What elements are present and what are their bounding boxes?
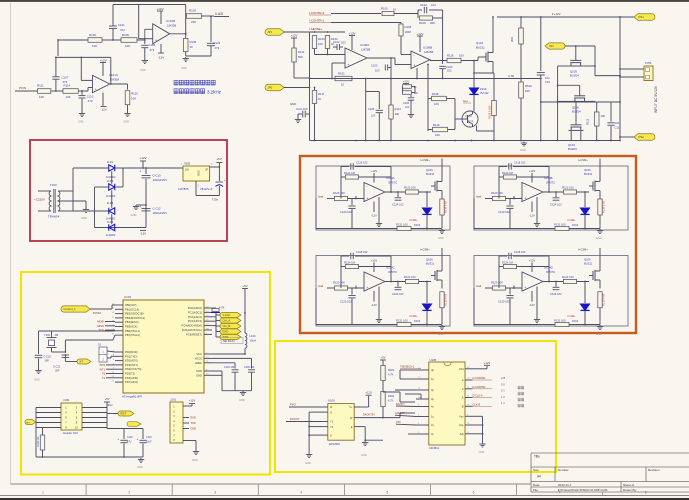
svg-text:C101 104: C101 104	[224, 366, 235, 369]
svg-text:R120 10K: R120 10K	[491, 191, 503, 195]
svg-text:+: +	[137, 437, 139, 441]
svg-text:R510: R510	[525, 84, 532, 88]
svg-text:D104: D104	[414, 224, 421, 227]
svg-text:473: 473	[88, 99, 93, 103]
svg-text:TP06: TP06	[645, 61, 652, 65]
svg-text:I-CSM+: I-CSM+	[567, 219, 576, 222]
svg-text:+: +	[118, 437, 120, 441]
svg-text:2: 2	[128, 490, 130, 494]
svg-text:I-CONTR-2: I-CONTR-2	[309, 11, 324, 15]
svg-text:XT: XT	[80, 360, 84, 364]
svg-text:I-SENSE+: I-SENSE+	[309, 27, 323, 31]
svg-text:R108: R108	[405, 25, 412, 29]
svg-text:+5V: +5V	[242, 284, 247, 288]
svg-text:1 1: 1 1	[501, 401, 505, 405]
svg-text:D-CONTR1: D-CONTR1	[473, 377, 487, 380]
svg-text:1: 1	[42, 490, 44, 494]
svg-text:~C220V: ~C220V	[34, 198, 45, 202]
svg-text:PD0(RXD): PD0(RXD)	[125, 350, 138, 354]
svg-text:F+12V: F+12V	[552, 12, 561, 16]
svg-text:C-50: C-50	[508, 74, 515, 78]
svg-text:7SEGBCD-1: 7SEGBCD-1	[400, 366, 415, 369]
svg-text:S1: S1	[98, 343, 102, 347]
svg-text:C107: C107	[62, 76, 69, 80]
svg-text:PVO: PVO	[290, 403, 296, 407]
svg-text:Ioad: Ioad	[476, 195, 482, 199]
svg-text:RL10 0.02: RL10 0.02	[444, 200, 448, 213]
svg-text:-12V: -12V	[371, 303, 377, 307]
svg-text:5: 5	[387, 490, 389, 494]
svg-text:R109: R109	[419, 21, 426, 25]
svg-text:GND: GND	[140, 69, 146, 72]
svg-text:C106 104: C106 104	[244, 366, 255, 369]
svg-text:I+CSM+: I+CSM+	[420, 248, 430, 252]
svg-text:GND: GND	[520, 148, 526, 152]
svg-text:C110: C110	[87, 95, 94, 99]
svg-text:C11: C11	[615, 126, 620, 130]
svg-text:R115: R115	[586, 118, 590, 125]
svg-text:C10: C10	[545, 80, 550, 84]
svg-text:PC1(ADC1): PC1(ADC1)	[188, 310, 202, 314]
svg-text:R201: R201	[388, 368, 395, 372]
svg-text:+12V: +12V	[529, 259, 536, 263]
svg-text:T10a: T10a	[212, 198, 218, 202]
svg-text:4.7K: 4.7K	[388, 373, 394, 377]
svg-text:PD7(AIN1): PD7(AIN1)	[125, 380, 138, 384]
svg-text:PD5(T1): PD5(T1)	[125, 372, 135, 376]
svg-text:+12V: +12V	[484, 361, 491, 365]
svg-text:Vee: Vee	[459, 423, 464, 427]
svg-text:A4: A4	[537, 475, 541, 479]
svg-text:R122 100: R122 100	[562, 186, 574, 190]
svg-text:-12V: -12V	[140, 232, 146, 236]
svg-text:J100: J100	[63, 398, 70, 402]
svg-text:D104: D104	[572, 224, 579, 227]
svg-text:Q101: Q101	[476, 41, 483, 45]
svg-text:GND: GND	[181, 67, 187, 70]
svg-text:1N4002: 1N4002	[106, 217, 116, 221]
svg-text:+12V: +12V	[156, 7, 164, 11]
svg-text:BUZ04: BUZ04	[568, 147, 577, 151]
svg-text:10K: 10K	[66, 95, 71, 99]
svg-text:R106: R106	[122, 33, 129, 37]
svg-text:103: 103	[375, 69, 380, 73]
svg-text:DAOUT: DAOUT	[396, 403, 405, 406]
svg-text:DAOUT: DAOUT	[290, 417, 300, 421]
svg-text:Ioad: Ioad	[318, 284, 324, 288]
svg-text:473: 473	[215, 46, 220, 50]
svg-text:Q106: Q106	[584, 168, 591, 172]
svg-text:ADG509: ADG509	[329, 442, 340, 446]
svg-text:1K: 1K	[190, 45, 194, 49]
svg-text:GND: GND	[196, 369, 202, 373]
svg-text:473: 473	[63, 80, 68, 84]
svg-text:Ioad: Ioad	[476, 284, 482, 288]
svg-text:PC5(ADC5/SCL): PC5(ADC5/SCL)	[182, 328, 202, 332]
svg-text:9014: 9014	[467, 119, 474, 123]
svg-text:+12V: +12V	[291, 34, 298, 38]
svg-text:SCK: SCK	[99, 328, 105, 332]
svg-text:C124 102: C124 102	[392, 203, 404, 207]
svg-text:4.7K: 4.7K	[388, 399, 394, 403]
svg-text:22K: 22K	[191, 20, 196, 24]
svg-text:Q106: Q106	[584, 258, 591, 262]
svg-text:D-CONTR2: D-CONTR2	[473, 386, 487, 389]
svg-text:+12V: +12V	[371, 169, 378, 173]
svg-text:R110: R110	[131, 92, 138, 96]
svg-text:PB5(SCK): PB5(SCK)	[125, 325, 138, 329]
svg-text:R202: R202	[388, 394, 395, 398]
svg-text:C100: C100	[420, 3, 427, 7]
svg-text:VCC: VCC	[196, 352, 202, 356]
svg-text:C116: C116	[146, 436, 152, 439]
svg-text:Adj: Adj	[460, 432, 464, 436]
svg-text:2012-11-7: 2012-11-7	[558, 483, 572, 487]
svg-text:C115: C115	[127, 436, 133, 439]
svg-text:BUZ04: BUZ04	[570, 74, 579, 78]
svg-text:GND: GND	[479, 450, 485, 454]
svg-text:MISO: MISO	[97, 324, 104, 328]
svg-text:I-CSM+: I-CSM+	[409, 219, 418, 222]
svg-text:TRANS4: TRANS4	[48, 215, 60, 219]
svg-text:AVCC: AVCC	[195, 356, 202, 360]
svg-text:PD1(TXD): PD1(TXD)	[125, 354, 137, 358]
svg-text:I+CSM+: I+CSM+	[420, 158, 430, 162]
svg-text:C118 102: C118 102	[356, 250, 368, 254]
svg-text:1K: 1K	[318, 97, 322, 101]
svg-text:103: 103	[431, 3, 436, 7]
svg-text:LM7805: LM7805	[178, 187, 189, 191]
svg-text:10K: 10K	[601, 114, 606, 118]
svg-text:-12V: -12V	[529, 214, 535, 218]
svg-text:LM358: LM358	[361, 48, 371, 52]
svg-text:R124 1M: R124 1M	[344, 261, 356, 265]
svg-text:10K: 10K	[125, 44, 130, 48]
svg-text:R111: R111	[298, 50, 305, 54]
svg-text:PS2: PS2	[639, 135, 645, 139]
svg-text:GND: GND	[131, 213, 137, 217]
svg-text:C105: C105	[368, 107, 375, 111]
svg-text:PB3(MOSI/OC2): PB3(MOSI/OC2)	[125, 316, 145, 320]
svg-text:INPUT DC 9V/12V: INPUT DC 9V/12V	[654, 85, 658, 113]
svg-text:D-D1: D-D1	[107, 160, 114, 164]
svg-text:R118: R118	[432, 92, 439, 96]
svg-text:+12V: +12V	[371, 259, 378, 263]
svg-text:C-C12: C-C12	[153, 207, 162, 211]
svg-text:U101A: U101A	[109, 73, 118, 77]
svg-text:D-D3: D-D3	[107, 201, 114, 205]
svg-text:Y1: Y1	[330, 420, 334, 424]
svg-text:3K9: 3K9	[510, 37, 514, 42]
svg-text:V+: V+	[349, 405, 353, 409]
svg-text:3P: 3P	[205, 169, 208, 172]
svg-text:GND: GND	[81, 216, 87, 220]
svg-text:103: 103	[371, 114, 376, 118]
svg-text:+: +	[140, 170, 142, 174]
svg-text:10uF: 10uF	[146, 441, 152, 444]
svg-text:10K: 10K	[92, 44, 97, 48]
svg-text:10K: 10K	[131, 97, 136, 101]
svg-text:IN1: IN1	[550, 44, 555, 48]
svg-text:Iout: Iout	[463, 99, 468, 103]
svg-text:+5V: +5V	[380, 356, 385, 360]
svg-text:30P: 30P	[45, 360, 50, 363]
svg-text:CLK-B: CLK-B	[473, 404, 481, 407]
svg-text:PB1(OC1A): PB1(OC1A)	[125, 307, 139, 311]
svg-text:-12V: -12V	[158, 56, 165, 60]
svg-text:1N4002: 1N4002	[106, 233, 116, 237]
svg-text:R100: R100	[381, 7, 388, 11]
svg-text:OP07C: OP07C	[546, 181, 555, 185]
svg-text:C102: C102	[333, 40, 340, 44]
svg-text:R103: R103	[189, 9, 196, 13]
svg-text:OP07C: OP07C	[388, 181, 397, 185]
svg-text:R119: R119	[433, 123, 440, 127]
svg-text:Drawn By:: Drawn By:	[623, 488, 637, 492]
svg-text:C111: C111	[296, 107, 303, 111]
svg-text:103: 103	[303, 107, 308, 111]
svg-text:Ioad: Ioad	[318, 195, 324, 199]
svg-text:PVIN: PVIN	[19, 86, 26, 90]
svg-text:INT0: INT0	[100, 364, 106, 367]
svg-text:C120 102: C120 102	[498, 300, 510, 304]
svg-text:RXD: RXD	[191, 417, 196, 420]
svg-text:GND: GND	[305, 461, 311, 465]
svg-text:R106: R106	[318, 37, 325, 41]
svg-text:C120 102: C120 102	[340, 210, 352, 214]
svg-text:U106A: U106A	[360, 43, 369, 47]
svg-text:C-C21: C-C21	[53, 366, 61, 369]
svg-text:-12V: -12V	[371, 214, 377, 218]
svg-text:U103: U103	[124, 295, 131, 299]
svg-text:R111: R111	[37, 84, 44, 88]
svg-text:R124 1M: R124 1M	[502, 261, 514, 265]
svg-text:+: +	[140, 205, 142, 209]
svg-text:C106: C106	[149, 43, 156, 47]
svg-text:3.2kHz: 3.2kHz	[207, 90, 222, 95]
svg-text:U106B: U106B	[423, 46, 432, 50]
svg-text:LM358: LM358	[167, 24, 177, 28]
svg-text:VIN12V+F: VIN12V+F	[200, 187, 213, 191]
svg-text:Y2: Y2	[330, 425, 334, 429]
svg-text:BUZ11: BUZ11	[476, 46, 485, 50]
svg-text:PC4(ADC4/SDA): PC4(ADC4/SDA)	[182, 324, 203, 328]
svg-text:A B: A B	[501, 376, 505, 380]
svg-text:D-D4: D-D4	[107, 220, 114, 224]
svg-text:R123 0.022: R123 0.022	[488, 105, 492, 119]
svg-text:GND: GND	[290, 102, 296, 106]
svg-text:E: E	[351, 425, 353, 429]
svg-text:BUZ11: BUZ11	[426, 262, 435, 266]
svg-text:PVOM: PVOM	[93, 311, 101, 315]
svg-text:U106: U106	[328, 399, 335, 403]
svg-text:TXD: TXD	[191, 422, 196, 425]
svg-text:10: 10	[341, 83, 345, 87]
svg-text:CD4511: CD4511	[429, 446, 440, 450]
svg-text:GND: GND	[191, 428, 197, 431]
svg-text:PS1: PS1	[639, 15, 645, 19]
svg-text:I+CSM+: I+CSM+	[578, 248, 588, 252]
svg-text:OP07C: OP07C	[388, 270, 397, 274]
svg-text:Title: Title	[534, 455, 540, 459]
svg-text:BUZ04: BUZ04	[572, 110, 581, 114]
svg-text:47U: 47U	[127, 441, 132, 444]
svg-text:Q106: Q106	[426, 168, 433, 172]
svg-text:R122 100: R122 100	[562, 275, 574, 279]
svg-text:R104: R104	[89, 33, 96, 37]
svg-text:RL10 0.02: RL10 0.02	[444, 293, 448, 306]
svg-text:PB2(SS/OC1B): PB2(SS/OC1B)	[125, 312, 144, 316]
svg-text:104: 104	[615, 121, 620, 125]
svg-text:104: 104	[405, 106, 410, 109]
svg-text:1N4002: 1N4002	[106, 194, 116, 198]
svg-text:C100: C100	[446, 65, 453, 69]
svg-text:100K: 100K	[405, 30, 412, 34]
svg-text:I+CSM+: I+CSM+	[578, 158, 588, 162]
svg-text:+12V: +12V	[139, 156, 146, 160]
svg-text:A16OUT: A16OUT	[395, 412, 405, 415]
svg-text:50K: 50K	[298, 55, 303, 59]
svg-text:T-CLK: T-CLK	[223, 313, 231, 317]
svg-text:C106: C106	[403, 102, 410, 105]
svg-text:10K: 10K	[434, 102, 439, 106]
svg-text:R124 1M: R124 1M	[344, 171, 356, 175]
svg-text:10K: 10K	[318, 42, 323, 46]
svg-text:1K: 1K	[393, 8, 397, 12]
svg-text:R114: R114	[64, 84, 71, 88]
svg-text:C118 102: C118 102	[356, 161, 368, 165]
svg-text:+12V: +12V	[189, 399, 196, 403]
svg-text:+5V: +5V	[105, 397, 110, 401]
svg-text:GND: GND	[239, 398, 245, 402]
svg-text:Q106: Q106	[426, 258, 433, 262]
svg-text:+12V: +12V	[99, 59, 107, 63]
svg-text:3V/1W: 3V/1W	[480, 91, 489, 95]
svg-text:C118 102: C118 102	[514, 161, 526, 165]
svg-text:E:\Proteus\SKHLYD\SKHLYD.DDB 2: E:\Proteus\SKHLYD\SKHLYD.DDB 2.Ddb	[558, 488, 608, 492]
svg-text:R100 10K: R100 10K	[37, 436, 40, 447]
svg-text:Ctrl_A: Ctrl_A	[223, 319, 231, 323]
svg-text:4M: 4M	[55, 333, 59, 337]
svg-text:D-CLK-A: D-CLK-A	[473, 395, 483, 398]
svg-text:1 0: 1 0	[501, 395, 505, 399]
svg-text:R114: R114	[395, 107, 402, 111]
svg-text:PC2(ADC2): PC2(ADC2)	[188, 315, 202, 319]
svg-text:Control_1: Control_1	[64, 307, 77, 311]
svg-text:0-A/D: 0-A/D	[215, 12, 224, 16]
svg-text:GND: GND	[192, 458, 198, 462]
svg-text:GND: GND	[596, 333, 602, 336]
svg-text:PB7(XTAL2): PB7(XTAL2)	[125, 333, 140, 337]
svg-text:R120 10K: R120 10K	[333, 281, 345, 285]
svg-text:PD3(INT1): PD3(INT1)	[125, 363, 138, 367]
svg-text:+5V: +5V	[216, 157, 221, 161]
svg-text:R116: R116	[447, 54, 454, 58]
svg-text:JP2: JP2	[268, 86, 273, 90]
svg-text:1IN: 1IN	[185, 169, 189, 172]
svg-text:Revision: Revision	[648, 468, 660, 472]
svg-text:R120 10K: R120 10K	[333, 191, 345, 195]
svg-text:0 0: 0 0	[501, 382, 505, 386]
svg-text:C118 102: C118 102	[514, 250, 526, 254]
svg-text:102: 102	[447, 69, 452, 73]
svg-text:Number: Number	[558, 468, 569, 472]
svg-text:6: 6	[473, 490, 475, 494]
svg-text:103: 103	[341, 41, 346, 45]
svg-text:U105: U105	[430, 358, 437, 362]
svg-text:I-CONTR-1: I-CONTR-1	[309, 19, 324, 23]
svg-text:10K: 10K	[525, 89, 530, 93]
svg-text:C-C10: C-C10	[153, 174, 162, 178]
svg-text:C103: C103	[214, 41, 221, 45]
svg-text:C120 102: C120 102	[340, 300, 352, 304]
svg-text:R122 100: R122 100	[404, 275, 416, 279]
svg-text:4: 4	[300, 490, 302, 494]
svg-text:+: +	[224, 178, 226, 182]
svg-text:C120 102: C120 102	[498, 210, 510, 214]
svg-text:LM358: LM358	[424, 50, 434, 54]
svg-text:+12V: +12V	[403, 80, 409, 84]
svg-text:-12V: -12V	[100, 108, 107, 112]
svg-text:473: 473	[120, 28, 125, 32]
svg-text:100: 100	[459, 54, 464, 58]
svg-text:473: 473	[150, 48, 155, 52]
svg-text:INT1: INT1	[100, 368, 106, 371]
svg-text:30P: 30P	[55, 370, 60, 373]
svg-text:GND: GND	[438, 237, 444, 240]
svg-text:Header 10X: Header 10X	[63, 431, 78, 435]
svg-text:PD2(INT0): PD2(INT0)	[125, 359, 138, 363]
svg-text:GND: GND	[137, 465, 143, 469]
svg-text:D104: D104	[572, 320, 579, 323]
svg-text:Vdd: Vdd	[459, 367, 464, 371]
svg-text:10K: 10K	[435, 133, 440, 137]
svg-text:C124 102: C124 102	[392, 292, 404, 296]
svg-text:JP1: JP1	[268, 30, 273, 34]
svg-text:8: 8	[645, 490, 647, 494]
svg-text:MOSI: MOSI	[97, 320, 104, 324]
svg-text:BUZ11: BUZ11	[584, 262, 593, 266]
svg-text:A: A	[462, 396, 464, 400]
svg-text:D-D2: D-D2	[107, 179, 114, 183]
svg-text:GND: GND	[34, 378, 40, 382]
svg-text:PC6(RESET): PC6(RESET)	[186, 332, 202, 336]
svg-text:3: 3	[214, 490, 216, 494]
svg-text:Size: Size	[533, 468, 539, 472]
svg-text:Sheet of: Sheet of	[623, 483, 634, 487]
svg-text:1000uF25V: 1000uF25V	[153, 211, 168, 215]
svg-text:RL10 0.02: RL10 0.02	[602, 293, 606, 306]
svg-text:C124 102: C124 102	[550, 292, 562, 296]
svg-text:-12V: -12V	[529, 303, 535, 307]
svg-text:RL10 0.02: RL10 0.02	[602, 200, 606, 213]
svg-text:T100: T100	[50, 183, 57, 187]
svg-text:R117: R117	[318, 92, 325, 96]
svg-text:R131 100: R131 100	[396, 223, 408, 227]
svg-text:1000uF25V: 1000uF25V	[153, 178, 168, 182]
svg-text:B: B	[462, 405, 464, 409]
svg-text:DAOUT5V: DAOUT5V	[363, 414, 375, 417]
svg-text:Ctrl_B: Ctrl_B	[223, 324, 231, 328]
svg-text:+12V: +12V	[348, 32, 355, 36]
svg-text:AREF: AREF	[195, 361, 203, 365]
svg-text:PB0(ICP): PB0(ICP)	[125, 303, 136, 307]
svg-text:Vss: Vss	[459, 415, 464, 419]
svg-text:7: 7	[559, 490, 561, 494]
svg-text:Date:: Date:	[533, 483, 540, 487]
svg-text:U101B: U101B	[166, 19, 175, 23]
svg-text:R131 100: R131 100	[554, 319, 566, 323]
